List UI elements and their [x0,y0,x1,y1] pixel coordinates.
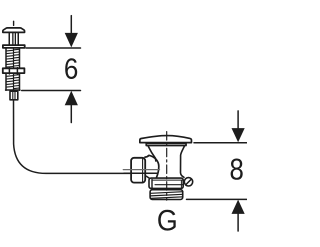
collar right facet line [180,180,182,188]
valve cap [140,136,192,143]
rod end nipple [10,91,18,100]
inlet elbow lower face [146,176,152,180]
threaded rod upper section [6,49,20,68]
valve cap rim [146,143,186,145]
bowden wire [14,100,158,173]
dimension 8: extension line top [194,142,247,144]
pull rod flange [3,45,25,48]
dimension 6: upper arrow [65,16,78,48]
valve centerline [166,132,168,201]
outlet collar [149,178,183,188]
screw head circle [184,178,192,186]
thread label G [158,210,176,231]
rod adjusting nut [3,68,25,73]
collar left facet line [151,180,153,189]
dimension 6: extension line top [26,47,80,49]
pull rod stem [9,32,18,44]
dimension text 6 [65,58,77,79]
screw slot [186,179,192,185]
pull rod tip [13,21,15,25]
dimension 6: extension line bottom [22,90,81,92]
wire end across nut [124,172,157,174]
G thread band [150,190,183,200]
inlet axis centerline [123,169,159,171]
dimension 8: lower arrow [232,200,245,231]
inlet elbow outer curve [145,155,159,177]
valve funnel body right edge [181,146,185,177]
inlet nut [131,158,145,183]
dimension text 8 [231,158,243,179]
dimension 8: extension line bottom [187,198,247,200]
pull rod knob cap [3,28,25,32]
threaded rod lower section [6,74,20,90]
dimension 6: lower arrow [65,91,78,123]
valve funnel body left edge [148,146,156,161]
dimension 8: upper arrow [232,111,245,142]
